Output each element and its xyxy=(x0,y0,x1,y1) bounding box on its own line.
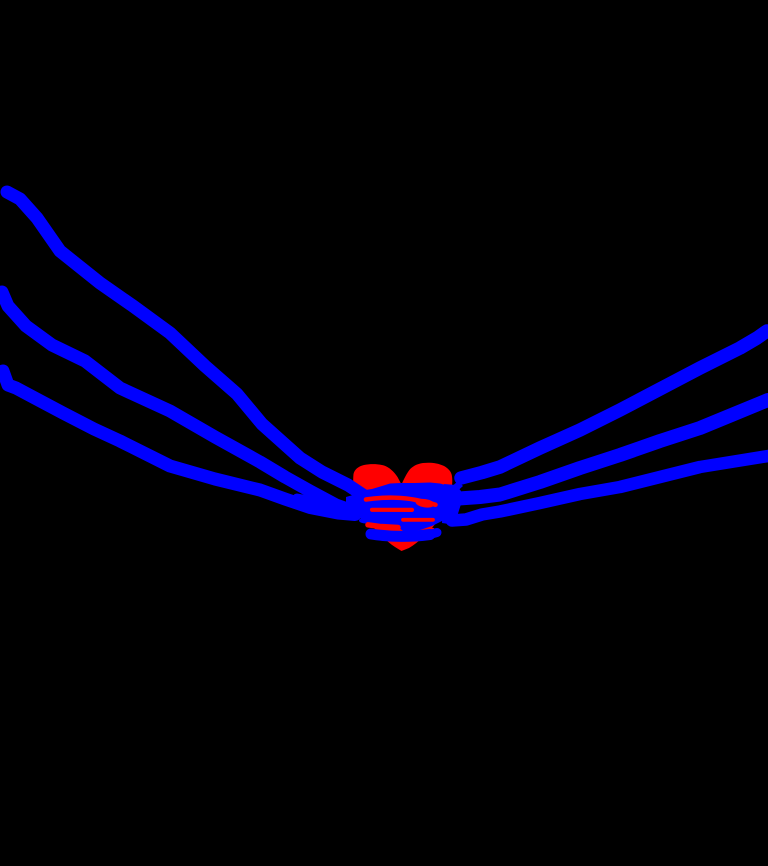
scribble left tail xyxy=(297,498,318,502)
stadium stroke E right tail xyxy=(428,533,437,536)
left knot patch xyxy=(346,493,368,519)
heart xyxy=(353,463,452,551)
wire R1 (top-right blue line) xyxy=(461,331,767,478)
wire L1 (top-left blue line) xyxy=(7,192,363,495)
red patch right of s1 xyxy=(415,498,435,509)
right knot connector xyxy=(448,481,463,496)
right knot patch xyxy=(442,484,461,524)
red sliver s3 xyxy=(403,518,433,522)
red dab inside right knot xyxy=(429,528,434,531)
scribble wrap blob around heart waist xyxy=(349,483,457,533)
bottom stadium stroke E xyxy=(371,534,430,536)
wire R3 (bottom-right blue line) xyxy=(452,456,768,521)
wire L2 (middle-left blue line) xyxy=(2,292,353,511)
red sliver s1 (heart showing through wrap) xyxy=(366,498,436,505)
wire R2 (middle-right blue line) xyxy=(452,400,768,499)
red sliver s2 xyxy=(372,508,412,512)
scribble loop D left tip xyxy=(359,518,373,524)
wire L3 (bottom-left blue line) xyxy=(3,371,355,515)
red sliver s4 xyxy=(368,525,398,528)
